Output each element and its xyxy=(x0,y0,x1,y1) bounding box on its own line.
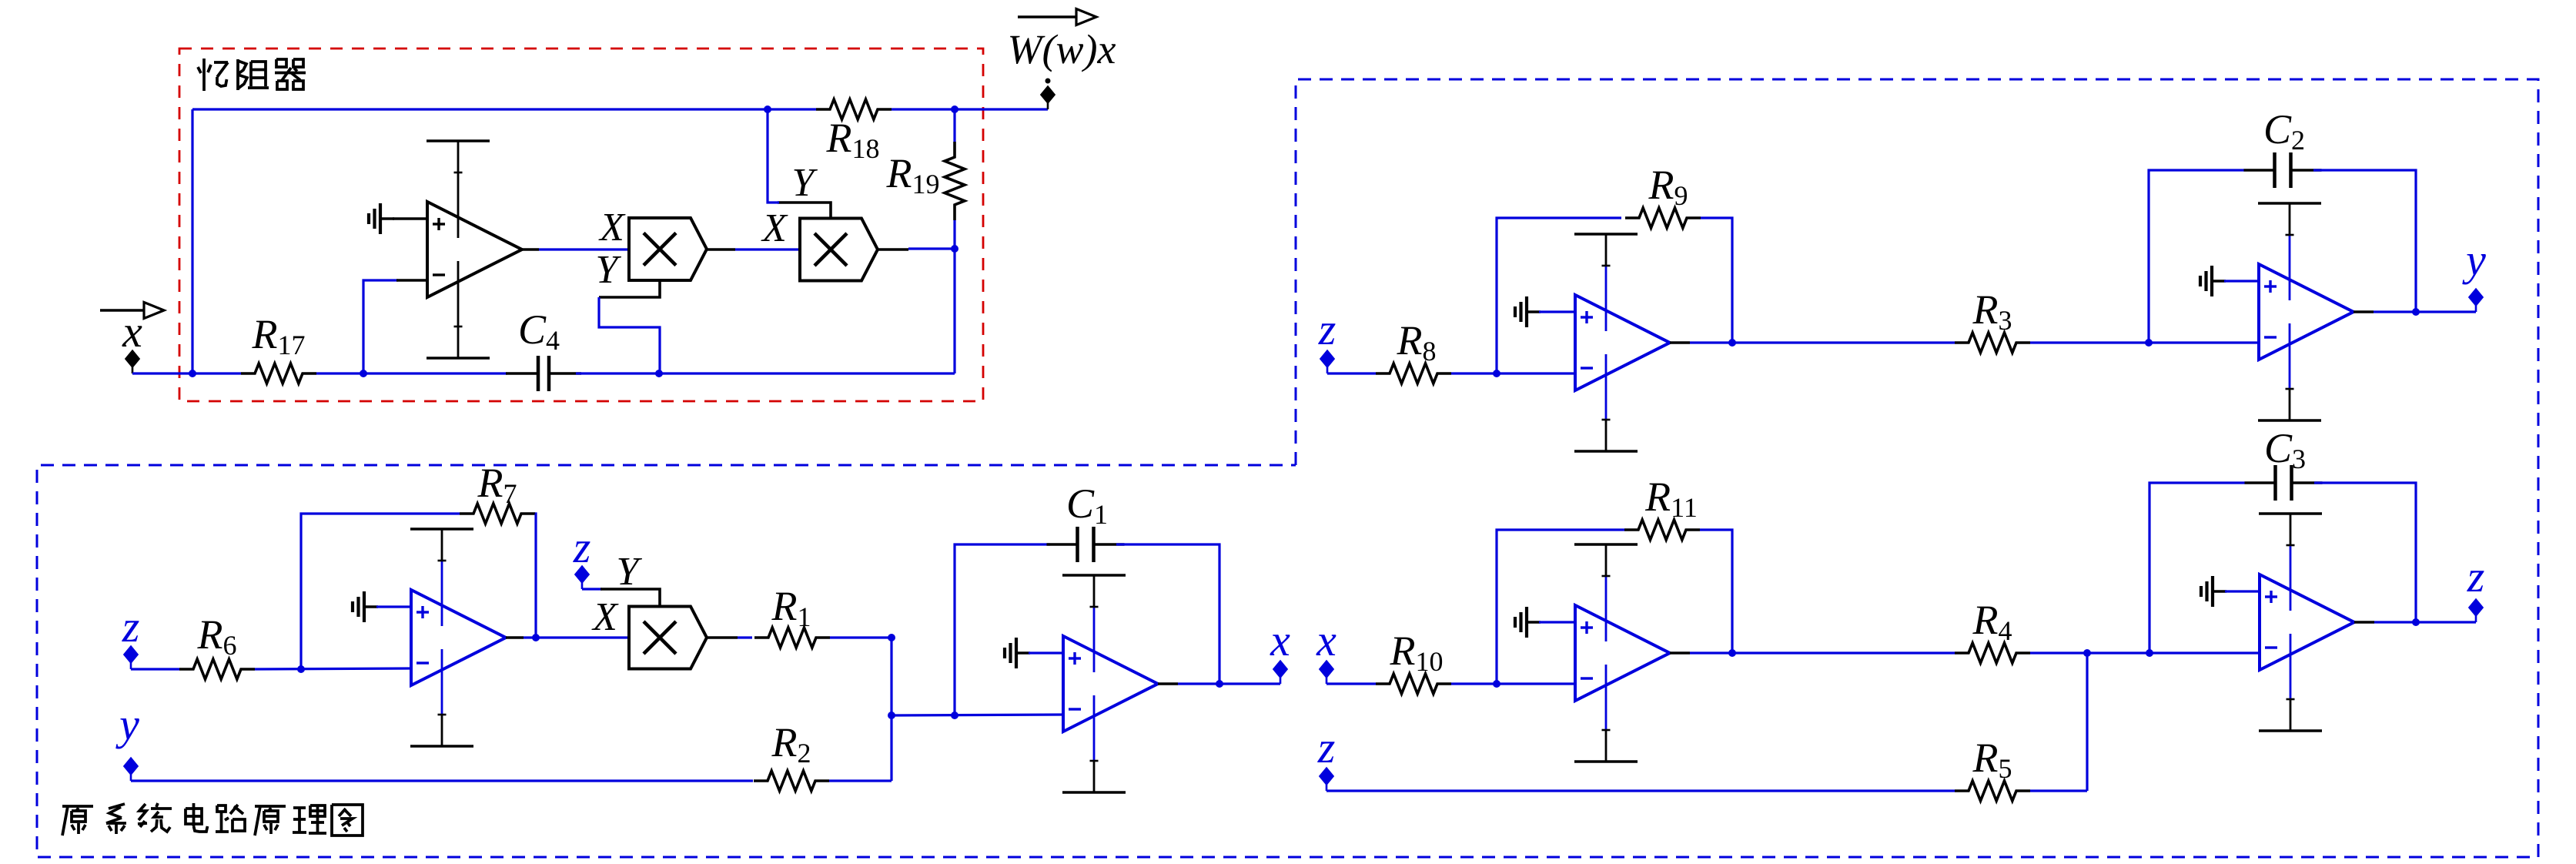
svg-text:y: y xyxy=(115,699,139,749)
wire R1 to junction xyxy=(830,636,892,638)
wire R3 to U5 inverting input xyxy=(2030,341,2259,343)
svg-text:Y: Y xyxy=(617,550,643,594)
wire to op-amp U1 inverting input xyxy=(363,280,398,373)
C1 feedback riser xyxy=(955,544,1050,715)
mult3 Y pin path xyxy=(582,589,660,607)
node junction mult2-Y on top rail xyxy=(764,105,771,113)
ground at U7 non-inverting input xyxy=(2201,576,2226,607)
svg-text:X: X xyxy=(761,206,788,250)
label R18 xyxy=(826,115,880,164)
label R4 xyxy=(1972,597,2012,646)
wire C4 to mult junction xyxy=(576,372,955,374)
wire R18 to W-terminal xyxy=(892,108,1048,110)
svg-text:z: z xyxy=(2467,551,2485,601)
label R19 xyxy=(886,150,940,199)
dot above output terminal xyxy=(1045,79,1051,84)
wire R5 to z terminal xyxy=(1326,789,1955,792)
wire x to R17 xyxy=(132,372,241,374)
output arrow W(w)x xyxy=(1018,9,1096,25)
label z (R6 input) xyxy=(122,601,140,651)
svg-text:z: z xyxy=(573,522,591,572)
label R1 xyxy=(771,583,811,632)
ground at U2 non-inverting input xyxy=(353,591,378,622)
wire R4 to U7 inverting input xyxy=(2030,651,2260,654)
label x xyxy=(122,306,142,357)
terminal W(w)x output xyxy=(1041,86,1055,110)
label z (R8 input) xyxy=(1318,304,1337,354)
ground at U6 non-inverting input xyxy=(1515,607,1541,638)
label 忆阻器 (memristor title) xyxy=(198,59,306,91)
capacitor C2 xyxy=(2244,152,2322,188)
wire to U3 inverting input xyxy=(892,715,1063,715)
node U4 output junction xyxy=(1728,339,1736,347)
resistor R8 xyxy=(1376,363,1451,383)
label C4 xyxy=(518,306,560,356)
node junction R9 branch xyxy=(1493,370,1500,377)
lead ground to U2 xyxy=(376,605,411,608)
wire R5 horizontal right part xyxy=(2030,789,2087,792)
wire U6 output to R4 xyxy=(1670,651,1955,655)
svg-text:X: X xyxy=(591,595,619,639)
label R17 xyxy=(252,311,306,360)
label X (mult3 X input) xyxy=(591,595,619,639)
label Y (mult1 Y input) xyxy=(596,248,622,292)
terminal y (R2 input) xyxy=(124,758,139,782)
svg-text:x: x xyxy=(122,306,142,357)
resistor R11 xyxy=(1624,520,1700,540)
label C2 xyxy=(2263,106,2305,156)
node U7 output junction xyxy=(2412,618,2420,626)
label z (U7 output) xyxy=(2467,551,2485,601)
capacitor C1 xyxy=(1047,527,1125,562)
terminal x (input) xyxy=(125,350,140,374)
power rails U6 xyxy=(1574,544,1638,762)
label y (U5 output) xyxy=(2462,235,2486,285)
node U3 output junction xyxy=(1216,680,1223,688)
label z (mult3 Y) xyxy=(573,522,591,572)
label R8 xyxy=(1397,317,1437,367)
wire mult2 output to node xyxy=(878,249,955,249)
wire U2 output to mult3 xyxy=(506,636,629,639)
resistor R17 xyxy=(241,363,316,383)
power rails U2 xyxy=(410,529,473,746)
resistor R9 xyxy=(1625,208,1701,228)
svg-text:Y: Y xyxy=(792,161,818,205)
wire R7 to U2 output node xyxy=(535,514,536,638)
ground at U5 non-inverting input xyxy=(2200,266,2226,296)
label X (mult1 X input) xyxy=(598,206,626,249)
label C1 xyxy=(1066,481,1108,530)
C2 feedback riser xyxy=(2149,170,2244,343)
wire R10 to U6 inverting input xyxy=(1451,682,1575,685)
power rails U5 xyxy=(2258,203,2321,420)
node mult2 output junction xyxy=(951,245,958,253)
svg-text:z: z xyxy=(1318,304,1337,354)
resistor R10 xyxy=(1376,674,1451,694)
wire U3 output to x terminal xyxy=(1158,682,1280,685)
label R2 xyxy=(771,719,811,769)
power rails U1 xyxy=(427,141,490,358)
label R3 xyxy=(1972,286,2012,336)
svg-text:z: z xyxy=(1317,722,1336,772)
label X (mult2 X input) xyxy=(761,206,788,250)
wire top rail to R18 xyxy=(192,108,816,110)
input arrow for x xyxy=(100,303,164,319)
power rails U4 xyxy=(1574,234,1638,451)
terminal z (R6 input) xyxy=(124,646,139,670)
capacitor C4 xyxy=(506,356,581,391)
multiplier A2 xyxy=(800,219,878,281)
node junction at x/top-feedback xyxy=(189,370,196,377)
lead ground to U5 xyxy=(2224,280,2259,282)
op-amp U2 xyxy=(411,590,506,685)
lead to U1 inverting input xyxy=(396,279,427,282)
wire R9 to U4 output node xyxy=(1701,218,1732,343)
label z (R5 input) xyxy=(1317,722,1336,772)
wire R5 riser xyxy=(2086,653,2088,791)
mult1 Y pin path xyxy=(599,280,660,373)
node junction R7 branch xyxy=(297,665,305,673)
node junction mult1 Y xyxy=(655,370,663,377)
svg-text:z: z xyxy=(122,601,140,651)
label R11 xyxy=(1644,474,1698,523)
label C3 xyxy=(2264,425,2306,474)
power rails U7 xyxy=(2259,514,2322,731)
terminal z (R5 input) xyxy=(1320,768,1334,792)
wire riser to R7 xyxy=(301,514,460,669)
label x (R10 input) xyxy=(1316,615,1337,665)
label R9 xyxy=(1648,162,1688,211)
ground at U1 non-inverting input xyxy=(369,203,394,234)
wire R11 to U6 output node xyxy=(1700,530,1732,653)
op-amp U4 xyxy=(1575,295,1670,390)
node junction C1 feedback xyxy=(951,712,958,719)
node junction C2 feedback xyxy=(2145,339,2153,347)
memristor block dashed red box xyxy=(179,49,983,401)
label R6 xyxy=(197,611,237,661)
wire z to R8 xyxy=(1327,372,1376,374)
label 原系统电路原理图 (original system schematic title) xyxy=(62,803,363,836)
terminal z (mult3 Y input) xyxy=(575,566,590,590)
C3 feedback riser xyxy=(2149,483,2245,653)
node junction R19 top xyxy=(951,105,958,113)
label R5 xyxy=(1972,735,2012,784)
svg-text:y: y xyxy=(2462,235,2486,285)
node U2 output junction xyxy=(532,634,540,641)
node junction R1/R2 xyxy=(888,634,895,641)
node U6 output junction xyxy=(1728,649,1736,657)
node junction C3 feedback xyxy=(2146,649,2153,657)
C3 feedback right side xyxy=(2314,483,2416,622)
power rails U3 xyxy=(1062,575,1126,792)
wire R17 to C4 xyxy=(316,372,507,374)
wire to R19 top xyxy=(953,109,955,142)
op-amp U6 xyxy=(1575,605,1670,701)
label R7 xyxy=(477,460,517,509)
wire U7 output to z terminal xyxy=(2354,621,2476,624)
capacitor C3 xyxy=(2245,465,2323,501)
wire x to R10 xyxy=(1326,682,1376,685)
label Y (mult3 Y input) xyxy=(617,550,643,594)
ground at U3 non-inverting input xyxy=(1005,638,1030,668)
wire riser to R11 xyxy=(1497,530,1624,684)
lead ground to U1 xyxy=(393,217,427,220)
svg-text:Y: Y xyxy=(596,248,622,292)
svg-text:X: X xyxy=(598,206,626,249)
wire junction down xyxy=(890,638,892,781)
node junction R4/R5 xyxy=(2083,649,2091,657)
label R10 xyxy=(1390,628,1444,677)
wire U1 output to mult1 xyxy=(520,248,629,251)
wire R19 bottom to node xyxy=(953,220,955,249)
wire riser to R9 xyxy=(1497,218,1621,373)
ground at U4 non-inverting input xyxy=(1515,296,1541,327)
node U5 output junction xyxy=(2412,308,2420,316)
wire R2 to riser xyxy=(829,779,892,782)
wire left vertical riser xyxy=(191,109,193,373)
resistor R1 xyxy=(754,628,830,648)
resistor R3 xyxy=(1955,333,2030,353)
resistor R5 xyxy=(1955,781,2030,801)
label W(w)x xyxy=(1008,26,1116,72)
resistor R7 xyxy=(460,504,535,524)
node junction inverting branch xyxy=(360,370,367,377)
resistor R2 xyxy=(754,771,829,791)
op-amp U5 (C2 integrator) xyxy=(2259,264,2354,360)
op-amp U1 xyxy=(427,202,522,297)
C1 feedback right side xyxy=(1116,544,1219,684)
wire R6 to U2 inverting input xyxy=(255,668,411,669)
resistor R19 xyxy=(945,142,965,220)
lead ground to U4 xyxy=(1539,310,1575,313)
terminal y (U5 output) xyxy=(2469,289,2484,313)
lead ground to U3 xyxy=(1029,651,1063,654)
label x (U3 output) xyxy=(1270,615,1290,665)
resistor R18 xyxy=(816,99,892,119)
wire y to R2 xyxy=(131,779,753,782)
op-amp U7 (C3 integrator) xyxy=(2260,574,2354,670)
node junction to U3 input xyxy=(888,712,895,719)
label y (R2 input) xyxy=(115,699,139,749)
mult2 Y pin path xyxy=(768,109,831,219)
lead ground to U6 xyxy=(1539,621,1575,623)
svg-text:x: x xyxy=(1316,615,1337,665)
resistor R6 xyxy=(179,659,255,679)
svg-text:x: x xyxy=(1270,615,1290,665)
wire U5 output to y terminal xyxy=(2354,310,2476,313)
wire mult3 to R1 xyxy=(707,636,752,639)
terminal x (R10 input) xyxy=(1320,661,1334,685)
terminal x (U3 output) xyxy=(1273,661,1288,685)
lead ground to U7 xyxy=(2225,590,2260,592)
terminal z (R8 input) xyxy=(1320,350,1335,374)
wire R8 to U4 inverting input xyxy=(1451,372,1575,374)
node junction R11 branch xyxy=(1493,680,1500,688)
wire right riser to mult2 output node xyxy=(953,249,955,373)
label Y (mult2 Y input) xyxy=(792,161,818,205)
op-amp U3 (C1 integrator) xyxy=(1063,636,1158,732)
multiplier A1 xyxy=(629,218,707,280)
wire z to R6 xyxy=(131,668,179,670)
multiplier A3 xyxy=(629,607,707,669)
terminal z (U7 output) xyxy=(2469,599,2484,623)
svg-text:W(w)x: W(w)x xyxy=(1008,26,1116,72)
wire U4 output to R3 xyxy=(1670,341,1955,344)
wire mult1 to mult2 xyxy=(707,248,800,251)
resistor R4 xyxy=(1955,643,2030,663)
C2 feedback right side xyxy=(2313,170,2416,312)
